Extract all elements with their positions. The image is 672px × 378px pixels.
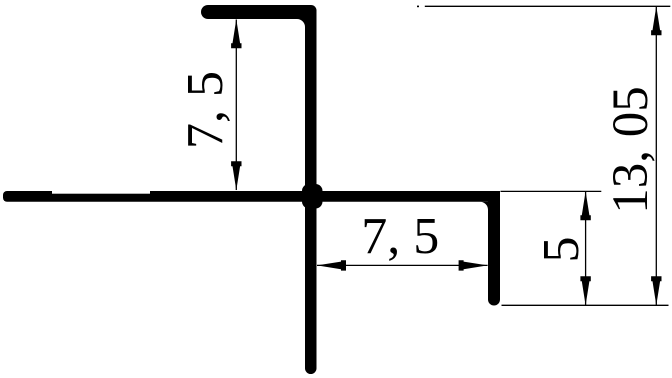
svg-text:5: 5 — [533, 237, 590, 263]
thin notch on top of middle bar (reduced thickness segment) — [52, 187, 150, 194]
profile vertical stem (full-height web, rounded bottom end) — [305, 10, 317, 374]
dimension 7,5 vertical: dimension line — [235, 20, 237, 191]
dimension 7,5 horizontal: right arrowhead — [459, 260, 488, 270]
dimension 13,05: small dot at start of top extension line — [417, 6, 419, 8]
dimension 13,05: lower arrowhead — [651, 276, 661, 305]
dimension 5: lower arrowhead — [580, 276, 590, 305]
svg-text:13, 05: 13, 05 — [603, 86, 659, 214]
dimension 5: top extension line — [501, 190, 602, 192]
dimension 7,5 vertical: lower arrowhead — [231, 161, 241, 190]
profile right leg (vertical bar, rounded bottom end) — [488, 191, 500, 306]
fillet at stem-left / top-flange junction — [297, 19, 305, 27]
dimension 5: dimension line — [585, 191, 587, 305]
svg-text:7, 5: 7, 5 — [361, 208, 439, 265]
dimension 13,05: upper arrowhead — [651, 6, 661, 35]
dimension 5: upper arrowhead — [580, 191, 590, 220]
svg-text:7, 5: 7, 5 — [177, 71, 234, 149]
fillet at right-leg-left / middle-bar-bottom junction — [480, 202, 488, 210]
dimension 13,05: dimension line — [655, 6, 657, 305]
dimension 13,05: top extension line — [425, 5, 671, 7]
junction bulge where stem crosses middle bar — [302, 184, 323, 209]
profile top flange (horizontal thick bar, rounded left end) — [201, 5, 317, 19]
dimension 7,5 vertical: upper arrowhead — [231, 19, 241, 48]
dimension 7,5 horizontal: dimension line — [317, 264, 488, 266]
dimension 13,05: bottom extension line — [502, 304, 669, 306]
profile middle horizontal bar — [3, 191, 500, 202]
dimension 7,5 horizontal: left arrowhead — [317, 260, 346, 270]
